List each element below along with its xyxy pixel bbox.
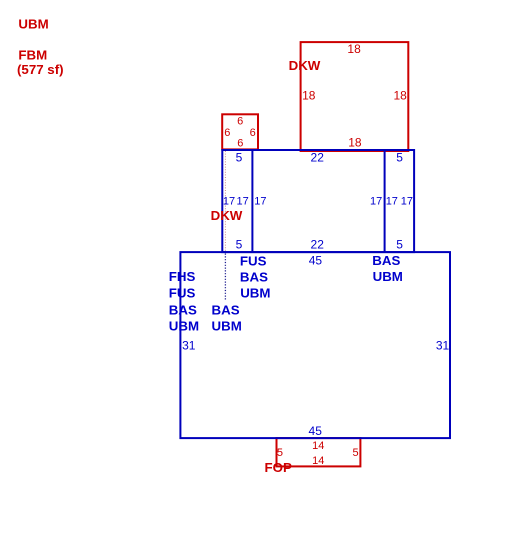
svg-text:5: 5 xyxy=(352,447,358,459)
svg-text:31: 31 xyxy=(182,339,196,353)
svg-text:45: 45 xyxy=(309,254,323,268)
svg-text:5: 5 xyxy=(396,151,403,165)
svg-text:DKW: DKW xyxy=(211,208,243,223)
svg-text:17: 17 xyxy=(254,196,266,208)
svg-text:18: 18 xyxy=(348,136,362,150)
svg-text:6: 6 xyxy=(237,116,243,128)
svg-text:FBM: FBM xyxy=(18,48,47,63)
svg-text:UBM: UBM xyxy=(373,269,403,284)
svg-text:BAS: BAS xyxy=(212,302,240,317)
svg-text:BAS: BAS xyxy=(372,253,400,268)
svg-text:17: 17 xyxy=(386,196,398,208)
svg-text:22: 22 xyxy=(311,238,325,252)
svg-text:6: 6 xyxy=(224,127,230,139)
svg-text:18: 18 xyxy=(347,42,361,56)
svg-text:6: 6 xyxy=(250,127,256,139)
svg-text:BAS: BAS xyxy=(240,269,268,284)
svg-text:FHS: FHS xyxy=(169,269,196,284)
svg-text:5: 5 xyxy=(396,238,403,252)
svg-text:FUS: FUS xyxy=(169,286,196,301)
svg-text:UBM: UBM xyxy=(18,16,48,31)
svg-text:14: 14 xyxy=(312,440,324,452)
svg-text:17: 17 xyxy=(401,196,413,208)
svg-text:5: 5 xyxy=(236,238,243,252)
svg-text:UBM: UBM xyxy=(169,319,199,334)
svg-text:17: 17 xyxy=(370,196,382,208)
svg-text:31: 31 xyxy=(436,338,450,352)
svg-text:45: 45 xyxy=(309,424,323,438)
svg-text:UBM: UBM xyxy=(212,319,242,334)
svg-text:5: 5 xyxy=(236,151,243,165)
svg-text:18: 18 xyxy=(302,89,316,103)
svg-text:22: 22 xyxy=(311,151,325,165)
svg-text:DKW: DKW xyxy=(289,58,321,73)
svg-text:(577 sf): (577 sf) xyxy=(17,62,64,77)
svg-text:UBM: UBM xyxy=(240,285,270,300)
svg-text:FOP: FOP xyxy=(265,460,292,475)
svg-text:17: 17 xyxy=(237,196,249,208)
svg-text:6: 6 xyxy=(237,138,243,150)
svg-text:17: 17 xyxy=(223,196,235,208)
svg-text:FUS: FUS xyxy=(240,253,267,268)
svg-text:14: 14 xyxy=(312,455,324,467)
svg-text:BAS: BAS xyxy=(169,302,197,317)
svg-text:18: 18 xyxy=(393,89,407,103)
svg-text:5: 5 xyxy=(277,447,283,459)
